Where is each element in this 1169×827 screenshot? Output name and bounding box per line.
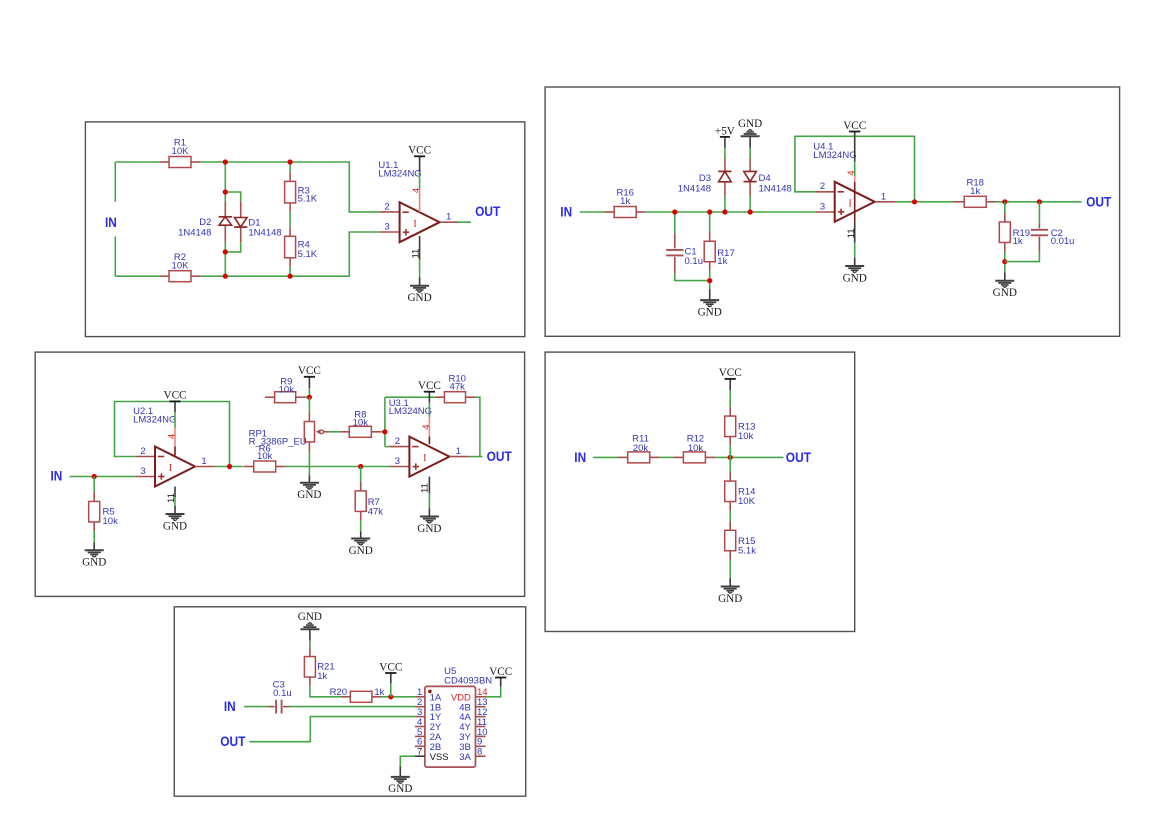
svg-text:1N4148: 1N4148 <box>678 183 711 194</box>
svg-text:OUT: OUT <box>220 733 246 749</box>
power stem VCC right <box>500 678 502 687</box>
diode D2 pins <box>224 202 226 217</box>
wire R14 to R15 <box>729 511 731 522</box>
U5 pin 2 (1B) <box>415 697 441 713</box>
junction divider tap <box>728 455 733 460</box>
pin 2 stub U3 <box>389 446 409 448</box>
svg-text:D2: D2 <box>199 217 211 228</box>
wire U3 out <box>469 456 483 458</box>
wire D4 to main <box>749 196 751 212</box>
svg-text:3: 3 <box>820 201 825 212</box>
wire IN to U2 pin3 <box>70 476 136 478</box>
svg-text:VCC: VCC <box>298 365 321 377</box>
potentiometer RP1 <box>249 413 329 452</box>
svg-text:4: 4 <box>167 434 178 439</box>
svg-text:IN: IN <box>105 214 117 230</box>
U1 pin 11 (V-) <box>411 236 422 260</box>
junction R5 tap <box>92 474 97 479</box>
svg-text:10K: 10K <box>172 146 190 157</box>
wire VCC to R13 <box>729 390 731 407</box>
svg-text:20k: 20k <box>633 443 649 454</box>
wire U2 pin11 to GND <box>174 497 176 506</box>
junction R7 tap <box>358 464 363 469</box>
svg-text:VCC: VCC <box>163 390 186 402</box>
sheet frame box 4 (voltage divider) <box>545 352 855 631</box>
svg-text:VCC: VCC <box>719 367 742 379</box>
capacitor C1 <box>666 233 703 273</box>
svg-text:1N4148: 1N4148 <box>178 228 211 239</box>
svg-text:3A: 3A <box>459 752 471 763</box>
junction C1-R17-GND <box>707 278 712 283</box>
wire R19 to GND node <box>1004 252 1006 273</box>
wire R13 to tap <box>729 446 731 458</box>
wire R7 to GND <box>360 520 362 531</box>
power stem VCC U2 <box>174 401 176 412</box>
wire to R5 <box>93 477 95 493</box>
gnd stem U5 <box>399 767 401 777</box>
resistor R19 <box>999 213 1030 252</box>
ground (U5 VSS) <box>388 777 412 795</box>
wire VCC to R9/RP1 node <box>308 388 310 397</box>
svg-text:11: 11 <box>420 483 431 493</box>
junction R1-D2 top <box>223 159 228 164</box>
svg-text:10k: 10k <box>353 417 369 428</box>
svg-text:+5V: +5V <box>715 125 735 137</box>
U5 pin 8 (3A) <box>459 747 485 763</box>
wire jog to D1 top <box>225 192 240 202</box>
power VCC (box4) <box>719 367 742 379</box>
wire R5 to GND <box>93 531 95 543</box>
wire to R7 <box>360 467 362 483</box>
U5 pin 11 (4Y) <box>459 717 487 733</box>
U2 pin 4 (V+) <box>167 428 178 456</box>
power stem +5V <box>724 137 726 148</box>
U1 pin numbers <box>384 201 451 232</box>
wire R2 to U1 pin3 <box>201 232 380 276</box>
resistor R8 <box>340 409 381 437</box>
gnd stem RP1 <box>308 476 310 483</box>
junction C2 tap <box>1037 199 1042 204</box>
svg-text:VSS: VSS <box>430 752 449 763</box>
junction D4 tap <box>748 209 753 214</box>
junction C1 tap <box>672 209 677 214</box>
wire U1 out <box>458 221 471 223</box>
ground (U4) <box>843 266 867 284</box>
svg-text:GND: GND <box>388 783 412 795</box>
svg-text:10k: 10k <box>688 443 704 454</box>
wire C3 to U5 pin2 <box>290 706 415 708</box>
diode D1 pins <box>240 202 242 218</box>
power VCC (U2) <box>163 390 186 402</box>
power stem VCC U3 <box>428 392 430 403</box>
resistor R15 <box>725 521 757 560</box>
svg-text:11: 11 <box>846 228 857 238</box>
U3 pin 4 (V+) <box>421 417 432 444</box>
svg-text:0.01u: 0.01u <box>1051 236 1075 247</box>
U3 pin numbers <box>395 436 461 467</box>
power VCC (U4) <box>843 120 866 132</box>
svg-text:5.1k: 5.1k <box>738 545 756 556</box>
svg-text:4: 4 <box>846 170 857 175</box>
svg-text:1k: 1k <box>317 671 327 682</box>
wire VCC node to RP1 <box>308 397 310 412</box>
wire C1 to R17 bottom <box>675 273 710 280</box>
resistor R3 <box>285 172 318 212</box>
gnd stem R5 <box>93 543 95 551</box>
wire R6 to U3 pin3 <box>285 466 389 468</box>
svg-text:1k: 1k <box>970 186 980 197</box>
sheet frame box 1 (diode clipper) <box>85 122 524 337</box>
U2 pin numbers <box>140 446 206 477</box>
svg-text:GND: GND <box>82 557 106 569</box>
U4 output pin 1 <box>875 201 895 203</box>
wire IN to R2 <box>115 275 159 277</box>
ground (R19/C2) <box>993 281 1017 299</box>
svg-text:GND: GND <box>163 520 187 532</box>
U5 pin 13 (4B) <box>459 697 487 713</box>
wire VCC right to U5 pin14 <box>486 687 501 697</box>
U1 output pin 1 <box>440 221 459 223</box>
resistor R12 <box>674 433 715 463</box>
svg-text:5.1K: 5.1K <box>298 194 318 205</box>
resistor R17 <box>704 232 735 271</box>
diode D1 (bar down) <box>234 217 282 238</box>
resistor R4 <box>285 227 318 266</box>
wire IN to R1 <box>115 161 159 163</box>
junction R3 top <box>288 159 293 164</box>
wire U5 pin3 to OUT <box>249 717 415 742</box>
svg-text:3: 3 <box>140 466 145 477</box>
junction feedback <box>912 199 917 204</box>
U1 pin 4 (V+) <box>411 188 422 212</box>
U5 pin 12 (4A) <box>459 707 487 723</box>
svg-text:1N4148: 1N4148 <box>759 183 792 194</box>
svg-text:OUT: OUT <box>1086 194 1112 210</box>
svg-text:11: 11 <box>411 249 422 259</box>
resistor R5 <box>89 492 118 531</box>
wire to R19 <box>1004 202 1006 213</box>
resistor R10 <box>435 374 475 403</box>
U5 pin 7 (VSS) <box>415 747 449 763</box>
wire +5V to D3 <box>724 148 726 159</box>
power VCC (R20) <box>379 661 402 673</box>
svg-text:IN: IN <box>560 204 572 220</box>
gnd stem U1 <box>419 278 421 286</box>
wire GND to R21 <box>309 641 311 648</box>
ground (RP1) <box>297 483 321 501</box>
ground (U1) <box>407 286 431 304</box>
svg-text:10k: 10k <box>279 385 295 396</box>
svg-text:OUT: OUT <box>487 448 513 464</box>
svg-text:47k: 47k <box>450 382 466 393</box>
diode D4 (bar down) <box>744 171 792 194</box>
wire D3 to main <box>724 196 726 212</box>
U5 pin 6 (2B) <box>415 737 441 753</box>
wire U5 pin7 to GND <box>400 756 415 766</box>
op-amp U3.1 (LM324NG) <box>409 437 449 477</box>
ground (box4) <box>718 587 742 605</box>
pin 2 stub U1 <box>380 211 400 213</box>
ground (C1/R17) <box>698 300 722 318</box>
power VCC (U3) <box>418 380 441 392</box>
ground (U2) <box>163 514 187 532</box>
pin 3 stub U2 <box>136 476 156 478</box>
wire to U3 pin2 <box>385 446 390 448</box>
svg-text:5.1K: 5.1K <box>298 249 318 260</box>
svg-text:GND: GND <box>718 593 742 605</box>
svg-text:10k: 10k <box>738 431 754 442</box>
resistor R20 <box>330 687 385 702</box>
diode D3 (bar up) <box>678 171 732 194</box>
resistor R13 <box>725 407 756 446</box>
wire R17 to GND node <box>709 271 711 289</box>
wire tap to R14 <box>729 457 731 472</box>
wire R1 to U1 pin2 <box>201 162 380 212</box>
svg-text:CD4093BN: CD4093BN <box>444 675 492 686</box>
power stem VCC (box4) <box>729 379 731 390</box>
U3 pin 11 (V-) <box>420 477 431 494</box>
diode D2 (bar up) <box>178 217 232 239</box>
U5 pin 9 (3B) <box>459 737 485 753</box>
U4 pin numbers <box>820 181 886 212</box>
svg-text:I: I <box>413 219 416 230</box>
svg-text:0.1u: 0.1u <box>273 688 292 699</box>
ground (R7) <box>349 539 373 557</box>
svg-text:GND: GND <box>407 292 431 304</box>
svg-text:I: I <box>848 198 851 209</box>
sheet frame box 5 (CD4093 stage) <box>174 607 525 796</box>
U2 pin 11 (V-) <box>166 487 177 503</box>
svg-text:R_3386P_EU: R_3386P_EU <box>249 437 307 448</box>
svg-text:I: I <box>169 463 172 474</box>
wire RP1 wiper to R8 <box>329 431 340 433</box>
svg-text:2: 2 <box>820 181 825 192</box>
junction R19 tap <box>1002 199 1007 204</box>
wire IN to C3 <box>244 706 268 708</box>
wire to C1 <box>674 212 676 233</box>
wire R20 to U5 pin1 <box>382 696 415 698</box>
junction U2 feedback <box>227 464 232 469</box>
svg-text:VCC: VCC <box>843 120 866 132</box>
power VCC (U1) <box>408 145 431 157</box>
gnd stem (box4) <box>729 579 731 587</box>
U3 output pin 1 <box>449 456 469 458</box>
svg-text:GND: GND <box>349 545 373 557</box>
resistor R21 <box>304 648 334 687</box>
power stem VCC (RP1) <box>308 377 310 388</box>
junction R8 feedback <box>382 429 387 434</box>
sheet frame box 3 (gain stage) <box>35 352 524 596</box>
resistor R9 <box>265 377 305 403</box>
wire R15 to GND <box>729 560 731 579</box>
svg-text:10k: 10k <box>103 516 119 527</box>
wire U1 pin11 to GND <box>419 260 421 278</box>
wire top to D2 <box>224 162 226 202</box>
U2 labels <box>133 406 176 425</box>
svg-text:OUT: OUT <box>786 449 812 465</box>
pin 3 stub U3 <box>389 466 409 468</box>
svg-text:VCC: VCC <box>379 661 402 673</box>
svg-text:1: 1 <box>446 212 451 223</box>
svg-text:2: 2 <box>384 201 389 212</box>
resistor R18 <box>955 178 996 208</box>
svg-text:GND: GND <box>738 118 762 130</box>
svg-text:LM324NG: LM324NG <box>378 169 421 180</box>
svg-text:10k: 10k <box>257 451 273 462</box>
svg-text:1k: 1k <box>620 196 630 207</box>
diode D4 pins <box>749 159 751 172</box>
junction VCC-pin1 <box>388 694 393 699</box>
U5 pin 5 (2A) <box>415 727 442 743</box>
svg-text:2: 2 <box>395 436 400 447</box>
U4 labels <box>813 141 856 160</box>
svg-text:3: 3 <box>384 222 389 233</box>
resistor R16 <box>605 188 646 218</box>
svg-text:LM324NG: LM324NG <box>133 415 176 426</box>
pin 3 stub U4 <box>816 211 835 213</box>
gnd stem U4 <box>854 258 856 266</box>
power stem VCC U4 <box>854 132 856 162</box>
wire R9 to VCC node <box>305 396 309 398</box>
diode D3 pins <box>724 159 726 172</box>
svg-text:VCC: VCC <box>408 145 431 157</box>
wire U4 out to R18 <box>895 201 955 203</box>
U5 pin 4 (2Y) <box>415 717 442 733</box>
resistor R14 <box>725 472 756 511</box>
svg-text:IN: IN <box>51 468 63 484</box>
junction R19-C2-GND <box>1002 259 1007 264</box>
ground (R5) <box>82 550 106 568</box>
junction R4 bottom <box>288 274 293 279</box>
junction D2 bottom <box>223 249 228 254</box>
svg-text:GND: GND <box>298 611 322 623</box>
U4 pin 4 (V+) <box>846 170 857 221</box>
svg-text:1: 1 <box>881 191 886 202</box>
svg-text:OUT: OUT <box>475 203 501 219</box>
wire RP1 bottom to GND <box>308 452 310 476</box>
svg-text:1: 1 <box>201 456 206 467</box>
U5 pin 10 (3Y) <box>459 727 487 743</box>
svg-text:VCC: VCC <box>418 380 441 392</box>
junction R17 tap <box>707 209 712 214</box>
svg-text:IN: IN <box>224 698 236 714</box>
wire R12 to OUT <box>715 456 783 458</box>
U3 labels <box>389 398 432 417</box>
capacitor C2 <box>1031 224 1075 252</box>
wire VCC to junction <box>390 683 392 697</box>
pin 2 stub U4 <box>816 191 835 193</box>
wire U2 out to R6 <box>215 466 244 468</box>
svg-text:VCC: VCC <box>489 666 512 678</box>
svg-text:LM324NG: LM324NG <box>389 406 432 417</box>
wire IN upper stub <box>114 162 116 202</box>
pin 2 stub U2 <box>136 456 156 458</box>
wire to R17 <box>709 212 711 232</box>
wire D1 bottom jog <box>225 242 240 252</box>
wire VCC to U3 <box>428 402 430 417</box>
U5 pin 14 (VDD) <box>451 687 488 703</box>
junction R9-VCC-RP1 <box>307 395 312 400</box>
op-amp U1.1 (LM324NG) <box>400 202 440 242</box>
gnd stem U3 <box>428 508 430 516</box>
svg-text:GND: GND <box>297 489 321 501</box>
gnd stem U2 <box>174 506 176 514</box>
svg-text:8: 8 <box>477 747 482 758</box>
wire IN to R11 <box>593 456 618 458</box>
svg-text:4: 4 <box>411 188 422 193</box>
wire feedback top right <box>475 397 480 456</box>
power VCC (RP1/R9) <box>298 365 321 377</box>
wire to C2 <box>1038 202 1040 224</box>
gnd stem D4 <box>749 136 751 147</box>
capacitor C3 <box>268 679 291 713</box>
svg-text:GND: GND <box>698 306 722 318</box>
U5 pin 3 (1Y) <box>415 707 442 723</box>
gnd stem R7 <box>360 531 362 538</box>
wire R8 to U3 feedback <box>381 431 385 433</box>
power VCC (U5) <box>489 666 512 678</box>
U4 pin 11 (V-) <box>846 222 857 243</box>
svg-text:4: 4 <box>421 424 432 429</box>
svg-text:R20: R20 <box>330 687 347 698</box>
junction D2 top <box>223 189 228 194</box>
wire U3 feedback left <box>384 397 386 446</box>
wire U3 pin11 to GND <box>428 493 430 508</box>
svg-text:3: 3 <box>395 456 400 467</box>
gnd stem R19 <box>1004 273 1006 281</box>
junction R2-D2 bottom <box>223 274 228 279</box>
svg-text:I: I <box>423 453 426 464</box>
wire D2 to bottom <box>224 242 226 277</box>
sheet frame box 2 (op-amp clipper) <box>545 87 1120 336</box>
ground (above D4) <box>738 118 762 136</box>
svg-text:47k: 47k <box>368 507 384 518</box>
junction D3 tap <box>722 209 727 214</box>
power stem VCC U1 <box>419 156 421 172</box>
svg-text:10K: 10K <box>172 260 190 271</box>
op-amp U2.1 (LM324NG) <box>155 447 195 487</box>
U2 output pin 1 <box>195 466 215 468</box>
power +5V <box>715 125 735 137</box>
wire IN lower stub <box>114 236 116 276</box>
resistor R2 <box>159 252 200 282</box>
svg-text:1k: 1k <box>1013 236 1023 247</box>
gnd stem R21 <box>309 629 311 640</box>
U5 pin 1 (1A) <box>415 687 442 703</box>
U5 pin1 orientation dot <box>428 690 432 694</box>
svg-text:1k: 1k <box>717 256 727 267</box>
wire C2 to GND node <box>1005 251 1040 262</box>
svg-text:GND: GND <box>417 523 441 535</box>
wire R11 to R12 <box>659 456 673 458</box>
pin 3 stub U1 <box>380 231 400 233</box>
svg-text:7: 7 <box>417 747 422 758</box>
wire U4 pin11 to GND <box>854 243 856 258</box>
gnd stem R17 <box>709 289 711 300</box>
wire U4 feedback <box>795 136 915 202</box>
resistor R1 <box>159 138 200 168</box>
wire top to R3 <box>289 162 291 173</box>
wire R18 to OUT <box>996 201 1082 203</box>
wire VCC to U1 <box>419 172 421 189</box>
svg-text:LM324NG: LM324NG <box>813 150 856 161</box>
wire R4 to bottom <box>289 267 291 276</box>
ground (R21 top) <box>298 611 322 629</box>
wire VCC to U2 <box>174 412 176 428</box>
power stem VCC (R20) <box>390 673 392 683</box>
wire feedback top left <box>385 396 435 398</box>
IC U5 CD4093BN body <box>425 686 476 767</box>
